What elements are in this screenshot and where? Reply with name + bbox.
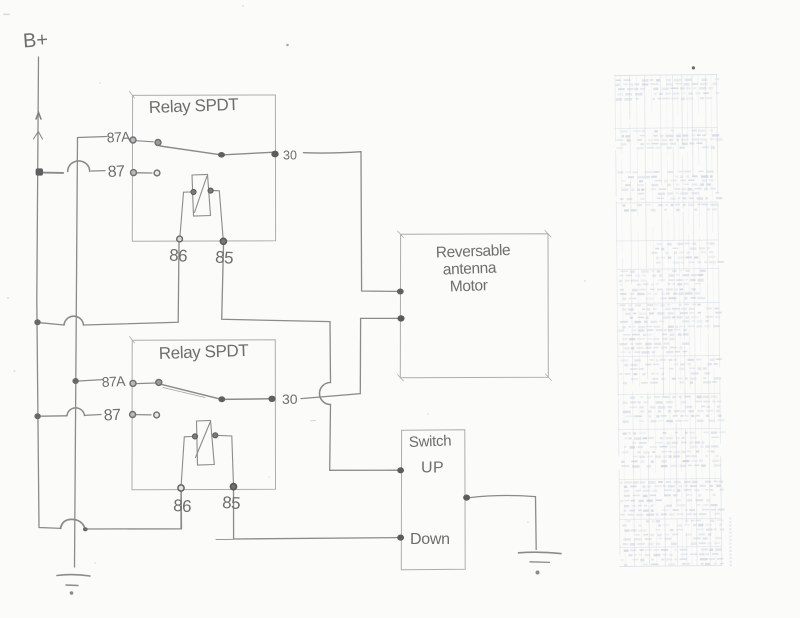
svg-text:UP: UP	[421, 460, 444, 477]
svg-text:85: 85	[215, 248, 234, 268]
svg-text:Reversable: Reversable	[436, 242, 511, 262]
svg-text:Relay SPDT: Relay SPDT	[149, 95, 239, 117]
svg-text:Relay SPDT: Relay SPDT	[159, 341, 249, 363]
svg-text:Motor: Motor	[450, 277, 488, 295]
svg-text:87: 87	[107, 163, 125, 181]
svg-text:85: 85	[222, 493, 241, 513]
svg-text:30: 30	[283, 149, 297, 163]
svg-text:Switch: Switch	[409, 433, 452, 451]
svg-text:B+: B+	[22, 29, 49, 53]
svg-text:86: 86	[173, 496, 192, 516]
svg-text:87A: 87A	[106, 128, 131, 145]
svg-text:86: 86	[169, 246, 188, 266]
svg-text:87: 87	[103, 407, 121, 425]
svg-text:87A: 87A	[101, 373, 126, 390]
svg-text:Down: Down	[410, 531, 450, 548]
svg-text:antenna: antenna	[443, 260, 498, 279]
svg-text:30: 30	[282, 391, 298, 407]
